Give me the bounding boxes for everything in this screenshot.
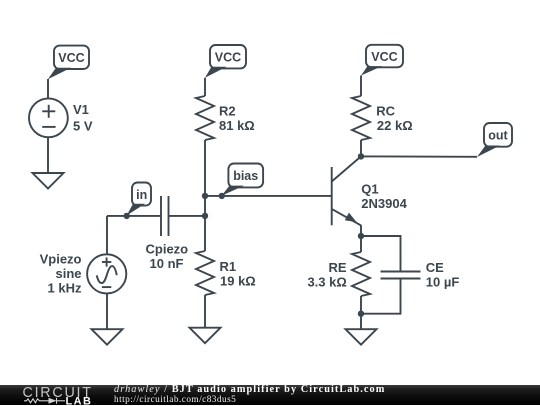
wire out (collector node to out flag) [361, 155, 477, 157]
capacitor CE 10uF [381, 260, 460, 290]
CircuitLab logo [0, 385, 100, 406]
ground (V1) [33, 173, 64, 189]
svg-text:Q1: Q1 [361, 182, 378, 197]
svg-text:V1: V1 [73, 102, 89, 117]
wire bias node to Q1 base [205, 195, 332, 197]
wire VCC to V1 top [47, 79, 49, 98]
resistor RC 22k [352, 96, 413, 140]
svg-text:VCC: VCC [58, 51, 84, 65]
svg-text:VCC: VCC [371, 50, 397, 64]
svg-text:RC: RC [376, 104, 395, 119]
svg-text:RE: RE [328, 260, 346, 275]
svg-text:Vpiezo: Vpiezo [40, 251, 82, 266]
svg-text:R1: R1 [220, 259, 237, 274]
wire R2 bottom through bias and cap junctions to R1 top [204, 140, 206, 251]
svg-text:Cpiezo: Cpiezo [146, 242, 189, 257]
svg-text:bias: bias [233, 169, 258, 183]
net flag out [477, 123, 512, 157]
wire cap right plate to middle column [169, 215, 206, 217]
V1 source circle with polarity signs [29, 98, 68, 137]
wire RE bottom to lower node [360, 296, 362, 314]
resistor R1 19k [196, 251, 256, 295]
node dot bias T-junction [202, 193, 208, 199]
voltage source V1 [29, 98, 93, 137]
node dot in flag tip [124, 213, 130, 219]
svg-text:in: in [136, 188, 147, 202]
Cpiezo plates [160, 196, 162, 236]
power flag VCC (middle, R2) [205, 45, 246, 78]
node dot bias flag tip [219, 193, 225, 199]
svg-text:sine: sine [55, 266, 81, 281]
node dot emitter junction [358, 233, 364, 239]
wire lower node to ground [360, 314, 362, 330]
svg-text:R2: R2 [219, 104, 236, 119]
ground (R1) [190, 328, 221, 344]
footer text line 1 [114, 385, 385, 395]
R2 zigzag body [196, 96, 214, 140]
wire emitter node to RE top [360, 236, 362, 252]
wire Vpiezo bottom to ground [106, 294, 108, 330]
wire R1 bottom to ground [204, 295, 206, 328]
power flag VCC (left, V1) [48, 46, 89, 80]
svg-text:2N3904: 2N3904 [361, 196, 407, 211]
transistor Q1 2N3904 [332, 156, 408, 236]
node dot collector junction [358, 153, 364, 159]
net flag bias [222, 164, 264, 196]
node dot RE/CE junction [358, 311, 364, 317]
svg-text:81 kΩ: 81 kΩ [219, 118, 255, 133]
R1 zigzag body [196, 251, 214, 295]
capacitor Cpiezo 10nF [146, 196, 189, 271]
wire emitter node to CE top [361, 236, 401, 272]
RE zigzag body [352, 252, 370, 296]
svg-text:out: out [488, 128, 508, 142]
svg-text:1 kHz: 1 kHz [48, 280, 82, 295]
net flag in [127, 183, 151, 216]
power flag VCC (right, RC) [361, 45, 403, 76]
wire in node left segment [107, 215, 161, 217]
CE plates [381, 271, 421, 273]
ground (Vpiezo) [92, 329, 123, 345]
svg-text:LAB: LAB [66, 395, 93, 405]
node dot capacitor junction [202, 213, 208, 219]
svg-text:5 V: 5 V [73, 118, 93, 133]
wire VCC to RC top [360, 76, 362, 97]
svg-text:19 kΩ: 19 kΩ [220, 274, 256, 289]
Vpiezo source circle with sine symbol [87, 254, 126, 293]
RC zigzag body [352, 96, 370, 140]
wire VCC to R2 top [204, 78, 206, 96]
resistor R2 81k [196, 96, 255, 140]
ground (RE) [346, 329, 377, 345]
wire RC bottom to collector node [360, 140, 362, 156]
source Vpiezo sine 1kHz [40, 251, 127, 295]
svg-text:10 µF: 10 µF [426, 275, 460, 290]
wire CE bottom back to lower node [361, 279, 401, 314]
svg-text:VCC: VCC [215, 50, 241, 64]
wire in node down to Vpiezo [106, 216, 108, 254]
footer text line 2 [114, 396, 236, 405]
svg-text:22 kΩ: 22 kΩ [377, 118, 413, 133]
footer bar [0, 385, 540, 406]
svg-text:10 nF: 10 nF [150, 256, 184, 271]
svg-text:3.3 kΩ: 3.3 kΩ [307, 274, 346, 289]
resistor RE 3.3k [307, 252, 370, 296]
wire V1 bottom to ground [47, 137, 49, 173]
svg-text:CE: CE [426, 260, 444, 275]
